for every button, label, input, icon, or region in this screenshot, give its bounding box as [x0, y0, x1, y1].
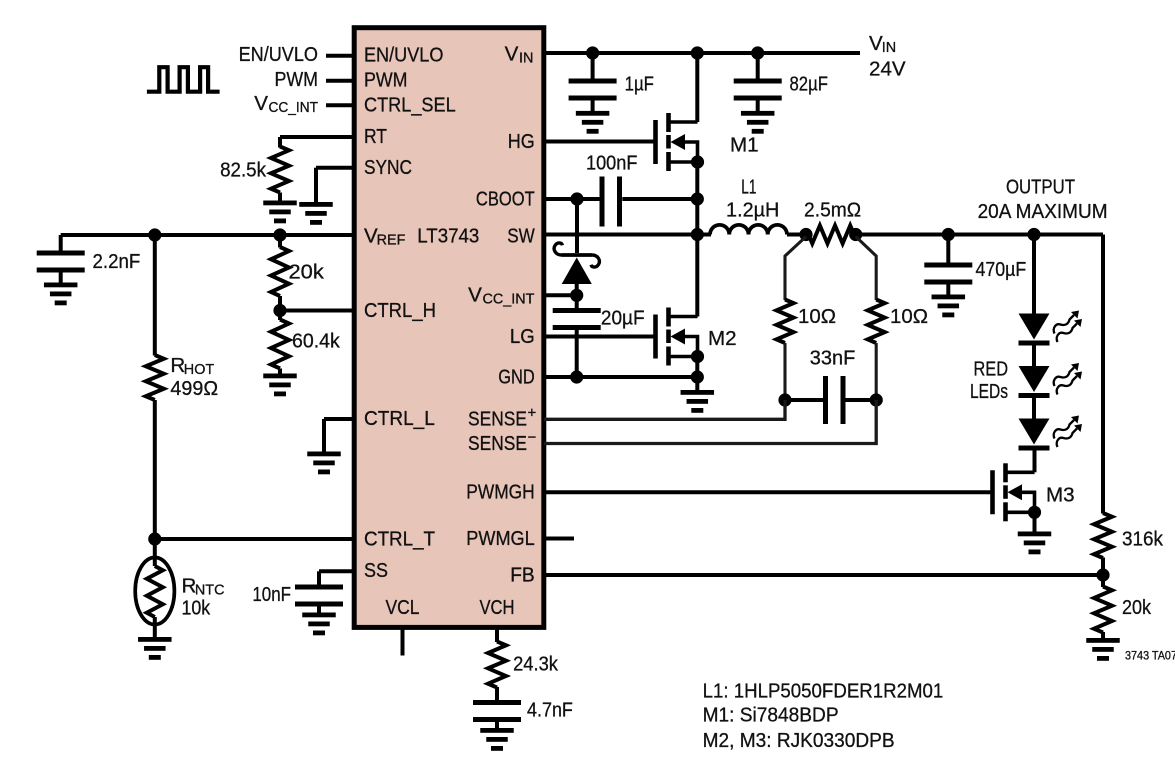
wire 33nF left: [785, 398, 823, 402]
node GND-20uF junction: [570, 370, 583, 383]
node Rsense right junction: [849, 228, 862, 241]
wire M3 source stem: [1033, 512, 1037, 532]
wire sense kelvin right: [856, 237, 877, 301]
wire 10ohm right to 33nF: [875, 343, 878, 400]
svg-text:CTRL_SEL: CTRL_SEL: [364, 93, 456, 116]
svg-text:499Ω: 499Ω: [170, 377, 218, 400]
ground 82uF: [741, 111, 775, 116]
wire LG: [544, 335, 656, 339]
svg-text:10k: 10k: [182, 597, 211, 620]
svg-text:10nF: 10nF: [252, 583, 291, 606]
svg-text:PWMGL: PWMGL: [466, 527, 534, 550]
ground 20k: [1086, 638, 1120, 643]
svg-text:M1: M1: [730, 134, 759, 157]
resistor 82.5k: [271, 147, 289, 193]
svg-text:82.5k: 82.5k: [220, 159, 267, 182]
svg-text:V: V: [254, 92, 268, 115]
transistor M2: [653, 315, 658, 359]
svg-text:2.5mΩ: 2.5mΩ: [804, 198, 861, 221]
capacitor 1uF: [591, 53, 595, 79]
svg-text:CC_INT: CC_INT: [269, 100, 319, 116]
wire 82.5k to ground: [278, 193, 282, 202]
svg-text:HG: HG: [508, 130, 535, 153]
svg-text:2.2nF: 2.2nF: [93, 250, 141, 273]
wire CTRL_T: [155, 537, 354, 541]
svg-text:M1: Si7848BDP: M1: Si7848BDP: [703, 704, 839, 727]
ground CTRL_L: [307, 452, 341, 457]
wire CTRL_L: [324, 417, 354, 421]
node SW junction: [691, 228, 704, 241]
svg-text:CTRL_H: CTRL_H: [364, 299, 436, 322]
wire LED1-LED2: [1032, 346, 1036, 367]
node GND-M2 junction: [691, 370, 704, 383]
svg-text:20A MAXIMUM: 20A MAXIMUM: [978, 200, 1108, 223]
svg-text:CTRL_L: CTRL_L: [364, 407, 435, 430]
wire VCH: [495, 627, 499, 642]
wire sense kelvin left: [785, 237, 806, 301]
wire M2 drain to SW: [695, 235, 699, 317]
svg-text:10Ω: 10Ω: [890, 305, 928, 328]
node CBOOT junction: [570, 192, 583, 205]
transistor M1: [653, 120, 658, 164]
wire 100nF to M1 source: [622, 197, 697, 201]
wire M1 source to SW: [695, 162, 699, 235]
wire M2 source to GND: [695, 357, 699, 378]
resistor 10ohm right: [868, 300, 885, 344]
IC U1 LT3743 body: [354, 28, 544, 628]
svg-text:RED: RED: [974, 358, 1009, 381]
node CBOOT-M1 junction: [691, 192, 704, 205]
capacitor 2.2nF: [59, 235, 63, 251]
ground power GND: [681, 390, 715, 395]
wire M1 drain to VIN: [695, 53, 699, 122]
ground 82.5k: [263, 201, 297, 206]
node VIN-82uF junction: [751, 46, 764, 59]
led string wire: [1032, 235, 1036, 315]
svg-text:M2: M2: [708, 327, 737, 350]
wire RHOT bottom: [153, 400, 157, 539]
svg-text:SS: SS: [364, 559, 388, 582]
svg-text:OUTPUT: OUTPUT: [1006, 176, 1075, 199]
inductor L1: [710, 225, 729, 235]
wire CTRL_SEL stub: [326, 103, 354, 107]
ground 4.7nF: [480, 728, 514, 733]
svg-text:GND: GND: [498, 366, 535, 389]
node VREF-20k junction: [273, 228, 286, 241]
capacitor 82uF: [756, 53, 760, 79]
svg-text:60.4k: 60.4k: [292, 330, 340, 353]
svg-text:RT: RT: [364, 125, 387, 148]
wire CBOOT: [544, 197, 600, 201]
capacitor 100nF: [600, 177, 605, 227]
wire SYNC: [316, 166, 354, 170]
wire 316k to FB: [1101, 558, 1105, 576]
ground RNTC: [138, 637, 172, 642]
wire RT: [280, 135, 354, 139]
svg-text:10Ω: 10Ω: [798, 305, 836, 328]
wire 20k to ground: [1101, 632, 1105, 639]
ground 60.4k: [263, 374, 297, 379]
capacitor 10nF: [295, 585, 343, 590]
wire GND: [544, 375, 698, 379]
resistor RHOT 499: [146, 355, 164, 400]
LED D4: [1019, 419, 1050, 445]
svg-text:PWM: PWM: [364, 69, 408, 92]
wire output rail: [856, 233, 1103, 237]
wire L1 to Rsense: [787, 233, 808, 237]
wire 10ohm left to 33nF: [783, 343, 786, 400]
svg-text:316k: 316k: [1122, 528, 1164, 551]
svg-text:82µF: 82µF: [790, 73, 828, 96]
svg-text:LG: LG: [510, 325, 535, 348]
wire EN/UVLO stub: [326, 54, 354, 58]
wire SENSE-: [544, 400, 876, 444]
svg-text:470µF: 470µF: [976, 258, 1027, 281]
node output-LED junction: [1027, 228, 1040, 241]
svg-text:−: −: [528, 429, 537, 446]
svg-text:LEDs: LEDs: [970, 380, 1008, 403]
svg-text:PWMGH: PWMGH: [466, 481, 534, 504]
svg-text:1µF: 1µF: [625, 73, 654, 96]
LED D3: [1019, 366, 1050, 392]
wire PWMGH: [544, 490, 993, 494]
svg-text:SW: SW: [507, 225, 535, 248]
node CTRL_H junction: [273, 304, 286, 317]
wire VCL stub: [401, 627, 405, 655]
svg-text:3743 TA07a: 3743 TA07a: [1125, 648, 1175, 662]
svg-text:20k: 20k: [289, 261, 325, 284]
node VIN-1uF junction: [586, 46, 599, 59]
ground 470uF: [932, 295, 966, 300]
node CTRL_T junction: [148, 532, 161, 545]
svg-text:SYNC: SYNC: [364, 156, 412, 179]
svg-text:20k: 20k: [1122, 596, 1152, 619]
wire VIN rail: [544, 51, 860, 55]
svg-text:IN: IN: [519, 51, 533, 67]
svg-text:SENSE: SENSE: [468, 432, 527, 455]
thermistor RNTC 10k: [153, 539, 157, 566]
wire HG: [544, 140, 656, 144]
resistor 60.4k: [278, 311, 282, 321]
ground SYNC: [299, 202, 333, 207]
wire 33nF right: [846, 398, 877, 402]
svg-text:CC_INT: CC_INT: [483, 291, 535, 307]
diode D1 schottky: [575, 199, 579, 253]
svg-text:HOT: HOT: [184, 362, 215, 378]
svg-text:FB: FB: [510, 563, 535, 586]
svg-text:+: +: [528, 405, 537, 422]
svg-text:24.3k: 24.3k: [513, 653, 559, 676]
svg-text:100nF: 100nF: [586, 152, 637, 175]
svg-text:20µF: 20µF: [601, 307, 645, 330]
svg-text:L1: 1HLP5050FDER1R2M01: L1: 1HLP5050FDER1R2M01: [703, 680, 944, 703]
svg-text:M2, M3: RJK0330DPB: M2, M3: RJK0330DPB: [703, 729, 895, 752]
svg-text:4.7nF: 4.7nF: [527, 699, 573, 722]
ground 10nF: [302, 613, 336, 618]
node 33nF left junction: [778, 393, 791, 406]
resistor 20k left: [278, 235, 282, 248]
svg-text:SENSE: SENSE: [468, 408, 527, 431]
ground 1uF: [576, 111, 610, 116]
wire VCC_INT pin: [544, 293, 577, 297]
svg-text:VCH: VCH: [480, 596, 515, 619]
svg-text:33nF: 33nF: [810, 347, 856, 370]
svg-text:PWM: PWM: [275, 68, 319, 91]
node VREF-RHOT junction: [148, 228, 161, 241]
wire RHOT top: [153, 235, 157, 356]
resistor 24.3k: [488, 642, 506, 688]
svg-text:24V: 24V: [869, 58, 906, 81]
ground M3: [1018, 532, 1052, 537]
wire 60.4k to ground: [278, 369, 282, 375]
svg-text:CBOOT: CBOOT: [476, 187, 535, 210]
node VIN-M1 junction: [691, 46, 704, 59]
svg-text:EN/UVLO: EN/UVLO: [239, 43, 318, 66]
wire GND stem: [695, 377, 699, 391]
svg-text:V: V: [468, 283, 482, 306]
node VCC_INT junction: [570, 289, 583, 302]
capacitor 33nF: [823, 376, 828, 424]
PWM waveform symbol: [147, 67, 220, 92]
wire SENSE+: [544, 400, 785, 419]
resistor 316k: [1094, 513, 1112, 558]
LED D2: [1019, 314, 1050, 340]
capacitor 4.7nF: [495, 687, 499, 700]
resistor 10ohm left: [777, 300, 794, 344]
svg-text:VCL: VCL: [386, 596, 420, 619]
node 33nF right junction: [870, 393, 883, 406]
svg-text:LT3743: LT3743: [417, 225, 479, 248]
wire M3 drain to LED: [1033, 448, 1037, 472]
svg-text:L1: L1: [741, 176, 756, 199]
capacitor 470uF: [946, 235, 950, 263]
wire VREF: [61, 233, 355, 237]
capacitor 20uF: [575, 295, 579, 308]
wire LED2-LED3: [1032, 398, 1036, 419]
wire PWMGL stub: [544, 537, 574, 541]
node output-470uF junction: [942, 228, 955, 241]
svg-text:EN/UVLO: EN/UVLO: [364, 44, 443, 67]
svg-text:CTRL_T: CTRL_T: [364, 528, 435, 551]
resistor Rsense 2.5m: [809, 226, 855, 244]
node Rsense left junction: [799, 228, 812, 241]
svg-text:V: V: [505, 43, 519, 66]
svg-text:REF: REF: [377, 233, 406, 249]
wire SS: [319, 569, 354, 573]
wire SW: [544, 233, 711, 237]
transistor M3: [990, 470, 995, 514]
ground 2.2nF: [44, 283, 77, 288]
node FB junction: [1096, 568, 1109, 581]
svg-text:M3: M3: [1046, 484, 1075, 507]
wire PWM stub: [326, 79, 354, 83]
resistor 20k right: [1101, 575, 1105, 587]
svg-text:IN: IN: [882, 40, 896, 56]
wire CTRL_H: [278, 296, 282, 311]
wire FB: [544, 573, 1103, 577]
svg-text:1.2µH: 1.2µH: [726, 198, 779, 221]
